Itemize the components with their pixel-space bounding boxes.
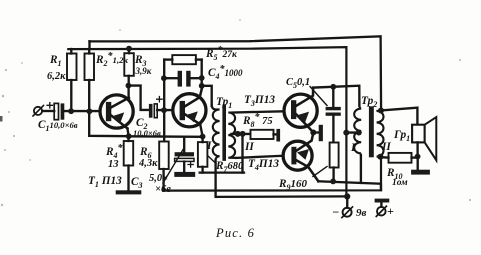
transformer Tr2 core xyxy=(369,106,374,157)
wire ground rail1 xyxy=(164,157,381,191)
svg-text:I: I xyxy=(206,140,212,152)
svg-text:10,0×6в: 10,0×6в xyxy=(133,128,161,138)
svg-text:Тр1: Тр1 xyxy=(216,96,232,110)
resistor R3 xyxy=(124,48,134,85)
svg-text:R1: R1 xyxy=(49,54,62,68)
resistor R2 xyxy=(85,49,129,136)
svg-text:R7680: R7680 xyxy=(215,160,244,174)
svg-text:II: II xyxy=(244,141,254,153)
decorative speckles omitted from labeling xyxy=(0,19,471,206)
wire R5 C4 left leg / R6 top leg xyxy=(163,60,165,142)
wire R5 right leg down xyxy=(201,60,203,86)
node C4 right xyxy=(199,75,205,81)
svg-text:Гр1: Гр1 xyxy=(393,129,410,143)
node center tap dot a xyxy=(235,131,241,137)
transformer Tr2 secondary winding xyxy=(377,111,384,157)
wire T3 collector to Tr2 primary top xyxy=(313,86,359,106)
svg-text:II: II xyxy=(381,141,391,153)
svg-text:С4*1000: С4*1000 xyxy=(208,64,243,81)
svg-text:R5*27к: R5*27к xyxy=(205,45,238,62)
wire Tr1 center tap to R8 xyxy=(232,133,251,135)
ground R8 chassis bar xyxy=(276,129,280,142)
svg-text:Т1 П13: Т1 П13 xyxy=(88,175,122,189)
svg-text:×6в: ×6в xyxy=(155,184,171,195)
svg-text:Т4П13: Т4П13 xyxy=(248,158,279,172)
svg-text:9в: 9в xyxy=(356,207,367,219)
wire Tr1 primary bottom to rail2 xyxy=(214,160,216,197)
svg-text:−: − xyxy=(332,205,339,219)
svg-text:1ом: 1ом xyxy=(392,178,408,188)
transistor T4 xyxy=(283,133,318,181)
wire input to C1 xyxy=(42,110,54,112)
node center tap dot b xyxy=(240,131,246,137)
node T1 collector junction xyxy=(125,83,131,89)
node T1 emitter junction xyxy=(126,133,132,139)
wire Tr2 center tap stub xyxy=(346,131,360,133)
transformer Tr1 primary winding xyxy=(212,105,220,163)
ground emitters chassis bar xyxy=(319,125,323,141)
resistor R6 xyxy=(159,142,169,191)
capacitor C5 xyxy=(326,87,341,143)
capacitor C4 xyxy=(164,71,202,87)
node R1 base junction xyxy=(68,108,74,114)
wire speaker node to chassis xyxy=(417,157,419,170)
wire Tr1 secondary bottom to T4 base xyxy=(236,156,282,158)
wire minus rail2 xyxy=(216,195,348,198)
input terminal xyxy=(33,106,44,117)
resistor R9 xyxy=(330,143,339,182)
node R3 top rail junction xyxy=(126,46,132,52)
node T3 T4 emitters junction xyxy=(310,130,316,136)
svg-text:R4*: R4* xyxy=(105,143,124,160)
wire Tr2 secondary top to speaker xyxy=(381,108,417,125)
node T2 collector junction xyxy=(199,83,205,89)
node C5 top xyxy=(330,84,336,90)
resistor R1 xyxy=(67,49,77,111)
svg-text:С3: С3 xyxy=(131,176,143,190)
ground C3 chassis bar xyxy=(174,172,195,177)
wire bias line under Tr1 xyxy=(200,171,244,173)
capacitor C3 xyxy=(175,137,194,172)
wire T4 collector line xyxy=(318,181,381,190)
transistor T2 xyxy=(173,88,206,127)
node minus terminal junction xyxy=(344,193,350,199)
svg-text:4,3к: 4,3к xyxy=(138,158,158,169)
transistor T1 xyxy=(100,95,133,128)
wire Tr1 secondary top to T3 base xyxy=(233,111,283,112)
svg-text:R9160: R9160 xyxy=(278,178,308,192)
resistor R7 xyxy=(198,137,208,173)
wire outer rail left drop xyxy=(88,41,90,49)
battery minus terminal xyxy=(342,197,353,217)
transistor T3 xyxy=(284,88,317,133)
transformer Tr1 core xyxy=(222,105,226,161)
svg-text:13: 13 xyxy=(108,159,119,170)
wire collector node to C2 xyxy=(128,86,149,110)
resistor R8 xyxy=(251,130,277,139)
node speaker bottom junction xyxy=(415,154,421,160)
svg-text:Рис. 6: Рис. 6 xyxy=(215,226,255,240)
node C4 left xyxy=(161,75,167,81)
leader C5 label line xyxy=(310,87,327,106)
leader R7 label line xyxy=(208,156,217,164)
svg-text:С110,0×6в: С110,0×6в xyxy=(38,119,78,133)
battery plus terminal xyxy=(375,199,390,217)
node R9 bottom xyxy=(330,179,336,185)
svg-text:Т3П13: Т3П13 xyxy=(244,94,275,108)
svg-text:Тр2: Тр2 xyxy=(361,95,377,109)
svg-text:3,9к: 3,9к xyxy=(135,66,152,76)
transformer Tr2 primary winding xyxy=(354,105,361,156)
wire Tr2 primary bottom riser xyxy=(360,155,362,183)
wire T2 emitter down xyxy=(200,124,202,136)
wire collector node to Tr1 primary top xyxy=(202,86,212,106)
svg-text:I: I xyxy=(350,142,356,154)
resistor R10 xyxy=(380,153,417,163)
wire emitter bus T1 to T2 xyxy=(129,135,203,138)
node R6 base junction xyxy=(161,107,167,113)
resistor R4 xyxy=(124,136,134,190)
node Tr2 center tap xyxy=(343,130,349,136)
ground speaker chassis bar xyxy=(411,170,430,175)
capacitor C1 xyxy=(47,103,64,120)
wire T1 emitter down xyxy=(127,128,128,136)
wire C2 to T2 base xyxy=(157,109,171,111)
speaker Gr1 xyxy=(412,117,436,160)
svg-text:5,0×: 5,0× xyxy=(149,173,168,184)
leader R9 label line xyxy=(313,167,327,177)
wire inner top rail xyxy=(68,47,346,197)
transformer Tr1 secondary winding xyxy=(228,113,236,158)
wire outer top rail xyxy=(90,36,382,110)
svg-text:+: + xyxy=(387,204,394,218)
svg-text:6,2к: 6,2к xyxy=(47,71,66,82)
wire center tap drop xyxy=(241,134,243,173)
capacitor C2 xyxy=(149,97,162,118)
node R2 base junction xyxy=(87,108,93,114)
resistor R5 xyxy=(164,55,202,64)
leader C3 label line xyxy=(163,148,184,183)
node Tr2 secondary top xyxy=(378,108,384,114)
wire T1 collector up xyxy=(127,86,129,98)
svg-text:С50,1: С50,1 xyxy=(286,77,310,90)
node Tr2 tap winding dot xyxy=(356,130,362,136)
wire C1 to T1 base xyxy=(64,110,99,112)
wire emitters to chassis xyxy=(313,131,318,133)
node Tr2 secondary bottom xyxy=(377,154,383,160)
ground R4 chassis bar xyxy=(116,190,142,194)
node T2 emitter junction xyxy=(200,134,206,140)
svg-text:R8* 75: R8* 75 xyxy=(242,112,273,129)
